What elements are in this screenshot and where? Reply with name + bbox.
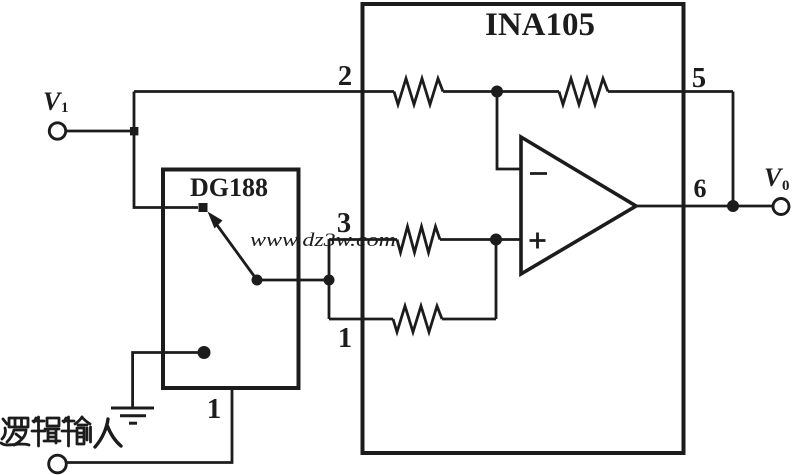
wire pin 2 row into INA105	[134, 90, 394, 93]
switch blade S1	[213, 220, 257, 281]
input terminal V1	[49, 123, 65, 139]
svg-text:0: 0	[782, 178, 790, 194]
wire pin 1 row	[329, 318, 393, 321]
wire ground pin to ground	[133, 353, 204, 409]
wire node D down to pin1 row	[495, 240, 498, 320]
label V1	[43, 87, 69, 116]
wire R3 to node D	[440, 238, 496, 241]
svg-text:V: V	[43, 87, 63, 116]
wire op-amp output to terminal	[636, 205, 774, 208]
wire pin5 down to output node	[732, 92, 735, 207]
wire node D to plus input	[496, 238, 521, 241]
svg-text:2: 2	[338, 61, 352, 92]
svg-text:V: V	[764, 163, 784, 192]
wire pin 3 row	[329, 238, 397, 241]
svg-text:DG188: DG188	[190, 173, 268, 202]
IC U2 box INA105	[363, 4, 684, 453]
op-amp U2a triangle	[521, 137, 636, 274]
op-amp plus sign	[530, 233, 546, 249]
ground symbol	[111, 408, 154, 423]
resistor R4	[393, 306, 442, 332]
switch throw contact dot	[199, 203, 208, 212]
svg-text:1: 1	[338, 323, 352, 354]
wire node B down to inverting input	[497, 92, 521, 170]
wire node C vertical pin3 to pin1	[328, 240, 331, 320]
junction node B	[491, 86, 503, 98]
svg-text:www.dz3w.com: www.dz3w.com	[250, 230, 396, 251]
logic input terminal	[49, 455, 67, 473]
label logic input 逻辑输入	[1, 417, 121, 447]
svg-text:1: 1	[61, 100, 69, 116]
switch blade arrowhead	[208, 212, 223, 229]
resistor R2 feedback	[559, 79, 608, 105]
junction node A	[130, 127, 138, 135]
DG188 internal ground pin dot	[198, 346, 211, 359]
IC U1 box DG188	[163, 170, 299, 389]
resistor R1	[394, 79, 443, 105]
junction output node	[727, 200, 739, 212]
wire R1 to node B	[443, 90, 559, 93]
wire V1 to node A	[66, 130, 135, 133]
svg-text:INA105: INA105	[485, 7, 595, 43]
junction node C	[324, 275, 335, 286]
wire logic input to DG188 pin 1	[67, 388, 233, 463]
svg-text:1: 1	[207, 393, 222, 425]
wire node A up to pin2 row	[133, 92, 136, 132]
switch pole dot	[252, 275, 263, 286]
wire R4 to node D vertical	[442, 318, 496, 321]
resistor R3	[397, 227, 440, 253]
junction node D	[490, 234, 502, 246]
svg-text:6: 6	[694, 174, 707, 203]
svg-text:5: 5	[692, 63, 706, 94]
output terminal V0	[773, 199, 789, 215]
wire R2 to pin 5	[608, 90, 733, 93]
op-amp minus sign	[530, 172, 547, 175]
label V0	[764, 163, 790, 194]
wire node A down to switch throw	[134, 131, 198, 208]
wire pole to node C	[257, 279, 329, 282]
